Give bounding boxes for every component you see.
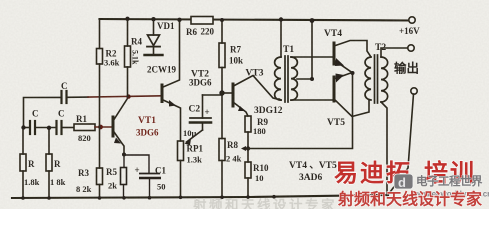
resistor R second — [46, 127, 66, 198]
node dot R7 rail junction — [220, 18, 224, 22]
capacitor C input 1 — [30, 109, 39, 135]
secondary winding — [381, 57, 388, 102]
node dot emitters junction — [351, 71, 355, 75]
resistor R2 3.6k — [97, 19, 120, 127]
transformer T1 — [275, 19, 333, 102]
primary winding — [365, 57, 371, 100]
wire output bottom to ground — [389, 94, 414, 194]
secondary bottom lead — [291, 99, 333, 101]
node dot R9 R10 junction — [246, 146, 250, 150]
resistor R7 10k — [219, 20, 243, 93]
node dot VT3 base — [219, 90, 224, 95]
resistor R3 8.2k — [76, 127, 103, 198]
wire input line y127 — [24, 127, 30, 129]
node dot R first on input line — [21, 125, 25, 129]
wire ground rail — [12, 195, 388, 198]
resistor R1 820 horizontal — [74, 114, 112, 143]
core — [284, 56, 286, 102]
resistor R9 180 — [245, 116, 268, 162]
wire top +16V rail — [100, 19, 413, 21]
secondary top lead — [291, 56, 333, 58]
capacitor C2 electrolytic — [183, 95, 211, 138]
primary winding — [280, 19, 282, 57]
transformer T2 — [365, 43, 407, 196]
resistor R — [20, 127, 40, 198]
secondary top lead — [381, 48, 408, 57]
transistor VT4 3AD6 — [324, 29, 371, 73]
transistor VT1 3DG6 — [113, 97, 159, 154]
transistor VT3 3DG12 — [222, 69, 283, 117]
resistor R4 5.1k — [125, 19, 143, 97]
wire to R1 — [62, 127, 74, 129]
secondary winding — [291, 57, 297, 100]
center tap — [297, 78, 312, 80]
wire feedback line y97 — [24, 97, 62, 127]
transistor VT5 3AD6 — [327, 73, 369, 129]
resistor R6 220 on rail — [186, 17, 215, 38]
capacitor C input 2 — [57, 109, 65, 135]
wire center tap riser — [311, 20, 313, 79]
wire feedback line right part (reddish) — [68, 96, 88, 98]
capacitor C (feedback) — [61, 81, 68, 103]
wire C2 to base node — [203, 93, 223, 95]
node dot VT2 collector rail junction — [177, 18, 181, 22]
terminal +16V — [399, 17, 420, 36]
potentiometer RP1 1.3k — [178, 130, 204, 197]
capacitor C1 50 electrolytic — [124, 155, 161, 198]
watermark grey logo eeworld — [394, 174, 489, 199]
wire between caps — [35, 127, 56, 129]
zener diode VD1 2CW19 — [145, 19, 177, 75]
node dot VT1 collector / R4 — [126, 94, 130, 98]
node dot base VT1 — [98, 125, 103, 130]
node dot R second — [47, 126, 51, 130]
transistor VT2 3DG6 — [162, 20, 212, 141]
wire bias line y150 — [248, 73, 353, 149]
resistor R8 2.4k — [219, 93, 242, 197]
secondary bottom lead — [381, 102, 387, 196]
core — [374, 55, 376, 103]
resistor R5 2k — [121, 154, 127, 198]
terminal output top — [408, 45, 414, 51]
terminal output bottom — [411, 88, 417, 94]
resistor R10 10 — [245, 162, 269, 198]
